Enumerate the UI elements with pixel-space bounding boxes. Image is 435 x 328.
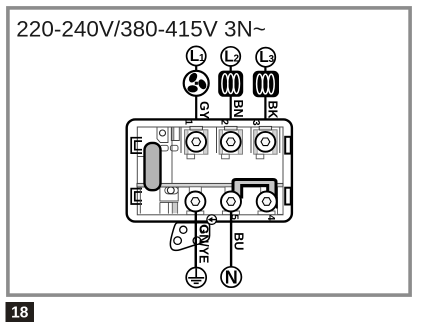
screw hole middle [167, 187, 174, 194]
foot under earth terminal [187, 211, 204, 215]
heating element box (L2) [218, 71, 243, 97]
bridge jumper 4-5 [233, 180, 276, 198]
svg-text:2: 2 [218, 119, 229, 125]
svg-text:L: L [259, 49, 268, 66]
terminal 5 [221, 192, 241, 212]
terminal 3 plate [254, 126, 277, 158]
earth wire over plate [195, 220, 197, 268]
svg-text:L: L [224, 48, 233, 65]
svg-text:4: 4 [265, 215, 276, 221]
right clip lower [285, 188, 291, 205]
terminal 1 [186, 132, 206, 152]
wire L2 to terminal 2 [230, 66, 232, 140]
svg-text:18: 18 [11, 305, 29, 322]
screw plate bottom-left [160, 184, 178, 214]
terminal block outer housing [127, 119, 292, 221]
left clip lower [131, 189, 142, 204]
node L2 [221, 47, 240, 66]
svg-text:BN: BN [231, 100, 245, 118]
terminal 4 slot [261, 187, 273, 215]
foot under terminal 5 [222, 211, 239, 215]
page number 18 [6, 302, 35, 322]
neutral N [221, 267, 241, 288]
svg-text:BK: BK [266, 101, 280, 119]
terminal 5 slot [225, 187, 237, 215]
svg-text:N: N [225, 267, 238, 287]
terminal 2 plate [219, 126, 242, 158]
wire L3 to terminal 3 [264, 67, 266, 140]
right wall tab [278, 187, 284, 215]
node L3 [256, 48, 275, 67]
earth symbol [186, 268, 206, 288]
terminal 2 [221, 132, 241, 152]
svg-text:5: 5 [228, 214, 239, 220]
svg-text:L: L [190, 48, 199, 65]
strain relief plate [170, 223, 209, 251]
fan motor symbol [184, 71, 209, 96]
svg-text:BU: BU [232, 232, 246, 250]
terminal 1 plate [185, 126, 208, 158]
terminal earth (bottom-left) [185, 192, 205, 212]
screw hole top [160, 130, 166, 136]
right clip upper [285, 137, 291, 154]
earth wire down [195, 201, 197, 268]
svg-text:2: 2 [234, 53, 240, 64]
neutral wire down [230, 201, 232, 267]
svg-text:GY: GY [197, 101, 211, 120]
svg-text:3: 3 [250, 120, 261, 126]
svg-text:1: 1 [183, 119, 194, 125]
svg-text:220-240V/380-415V 3N~: 220-240V/380-415V 3N~ [16, 17, 266, 42]
svg-text:3: 3 [269, 54, 275, 65]
foot under terminal 4 [258, 211, 275, 215]
plate separators [180, 128, 182, 154]
terminal block inner liner [137, 127, 283, 215]
ground screw indicator [207, 215, 217, 225]
node L1 [187, 46, 206, 65]
left clip upper [131, 138, 142, 153]
terminal 4 [257, 192, 277, 212]
heating element box (L3) [253, 71, 279, 97]
cable clamp pill [145, 143, 161, 190]
svg-text:1: 1 [199, 53, 205, 64]
terminal 3 [256, 132, 276, 152]
wire L1 to terminal 1 [195, 66, 197, 140]
housing interior details top-left [137, 128, 179, 214]
svg-text:GN/YE: GN/YE [197, 225, 211, 264]
middle divider [137, 183, 283, 187]
earth terminal slot [189, 187, 201, 215]
